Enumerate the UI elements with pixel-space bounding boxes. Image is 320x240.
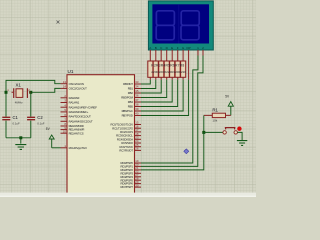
display pin 1 stub: [197, 50, 199, 56]
node capacitor ground junction: [19, 136, 22, 139]
node crystal pin1 junction: [5, 91, 8, 94]
pin 26 RC7/RX/DT: [119, 147, 141, 153]
wire C1 bottom to C2 bottom: [6, 137, 31, 139]
wire segment A to RB0: [141, 80, 150, 84]
pin 39 RB6/PGC: [122, 107, 141, 113]
svg-text:1: 1: [197, 46, 199, 50]
display segment pin labels ABCDEFG DP: [149, 46, 204, 50]
pin 4 RA2/AN2/VREF-/CVREF: [61, 103, 98, 109]
blue diamond marker: [184, 149, 189, 154]
svg-text:RB2: RB2: [128, 91, 134, 95]
display pin DP stub: [188, 50, 190, 57]
microcontroller U1 PIC16F877A body: [67, 75, 135, 197]
pin 38 RB5: [128, 103, 141, 109]
pin 2 RA0/AN0: [61, 94, 80, 100]
display pin 2 stub: [202, 50, 204, 56]
svg-text:40: 40: [135, 112, 139, 116]
svg-text:RB4: RB4: [128, 100, 134, 104]
svg-text:C1: C1: [13, 115, 19, 120]
pin 36 RB3/PGM: [121, 94, 141, 100]
svg-text:OSC2/CLKOUT: OSC2/CLKOUT: [69, 87, 88, 91]
svg-text:34: 34: [135, 85, 139, 89]
pin 29 RD6/PSP6: [120, 180, 141, 186]
pin 10 RE2/AN7/CS: [61, 129, 84, 135]
svg-text:0.1uF: 0.1uF: [13, 122, 20, 126]
svg-text:RA0/AN0: RA0/AN0: [69, 96, 80, 100]
resistor R7: [175, 57, 180, 80]
svg-text:F: F: [177, 46, 179, 50]
svg-text:RD7/PSP7: RD7/PSP7: [120, 185, 133, 189]
wire digit 2 to RD1: [141, 56, 203, 167]
svg-text:10k: 10k: [212, 118, 217, 122]
display pin D stub: [166, 50, 168, 57]
7-segment display module frame: [148, 1, 213, 50]
wire R1 to button node: [203, 115, 205, 132]
button red actuator dot: [237, 127, 241, 131]
svg-text:RB6/PGC: RB6/PGC: [122, 109, 133, 113]
svg-text:RA3/AN3/VREF+: RA3/AN3/VREF+: [69, 110, 89, 114]
capacitor C1: [2, 117, 10, 119]
display pin F stub: [177, 50, 179, 57]
wire to ground: [20, 138, 22, 144]
svg-text:DP: DP: [186, 46, 190, 50]
svg-text:33: 33: [135, 80, 139, 84]
wire crystal pin1 down to C1: [5, 92, 7, 116]
svg-text:RB7/PGD: RB7/PGD: [122, 114, 133, 118]
pin 21 RD2/PSP2: [120, 166, 141, 172]
pin 16 RC1/T1OSI/CCP2: [112, 124, 141, 130]
pin 23 RC4/SDI/SDA: [117, 136, 141, 142]
pin 14 OSC2/CLKOUT: [61, 85, 88, 91]
resistor R5: [164, 57, 169, 80]
ground (button): [237, 141, 247, 146]
push button: [223, 128, 237, 134]
svg-text:13: 13: [63, 80, 67, 84]
ground (crystal caps): [15, 145, 26, 150]
pin 25 RC6/TX/CK: [120, 143, 141, 149]
svg-text:U1: U1: [68, 69, 74, 74]
svg-text:220R220R220R220R220: 220R220R220R220R220: [151, 70, 186, 74]
power +5V flag (R1): [228, 102, 233, 107]
svg-text:0.1uF: 0.1uF: [37, 122, 44, 126]
display pin A stub: [149, 50, 151, 57]
svg-text:RB0/INT: RB0/INT: [123, 82, 133, 86]
pin 8 RE0/AN5/RD: [61, 122, 84, 128]
crystal X1: [12, 88, 31, 98]
digit divider: [178, 4, 180, 43]
display pin C stub: [160, 50, 162, 57]
pin 22 RD3/PSP3: [120, 170, 141, 176]
pin 37 RB4: [128, 98, 141, 104]
wire node to button: [204, 131, 223, 133]
wire segment E to RB4: [141, 80, 172, 102]
svg-text:4MHz: 4MHz: [15, 101, 23, 105]
svg-text:RB1: RB1: [128, 87, 134, 91]
svg-text:OSC1/CLKIN: OSC1/CLKIN: [69, 82, 84, 86]
pin 6 RA4/T0CKI/C1OUT: [61, 113, 92, 119]
display pin G stub: [182, 50, 184, 57]
seven segment digit 1: [156, 11, 174, 40]
pin 9 RE1/AN6/WR: [61, 126, 85, 132]
svg-text:X1: X1: [16, 83, 22, 88]
svg-text:RE2/AN7/CS: RE2/AN7/CS: [69, 131, 84, 135]
pin 24 RC5/SDO: [121, 139, 141, 145]
seven segment digit 2: [181, 11, 199, 40]
wire digit 1 to RD0: [141, 56, 198, 164]
pin 15 RC0/T1OSO/T1CKI: [110, 121, 141, 127]
svg-text:10: 10: [63, 129, 67, 133]
wire C1 bottom lead: [5, 121, 7, 138]
wire 5V flag to MCLR pin 1: [52, 147, 61, 149]
svg-text:MCLR/Vpp/THV: MCLR/Vpp/THV: [69, 146, 88, 150]
svg-text:RA1/AN1: RA1/AN1: [69, 101, 80, 105]
svg-text:RA4/T0CKI/C1OUT: RA4/T0CKI/C1OUT: [69, 115, 92, 119]
svg-text:RB5: RB5: [128, 105, 134, 109]
svg-text:RA2/AN2/VREF-/CVREF: RA2/AN2/VREF-/CVREF: [69, 105, 98, 109]
pin 30 RD7/PSP7: [120, 183, 141, 189]
svg-text:14: 14: [63, 85, 67, 89]
wire button to ground: [237, 132, 242, 140]
resistor R3: [153, 57, 158, 80]
pin 17 RC2/CCP1: [120, 128, 141, 134]
resistor R1: [204, 113, 231, 117]
svg-text:37: 37: [135, 98, 139, 102]
pin 28 RD5/PSP5: [120, 176, 141, 182]
svg-text:39: 39: [135, 107, 139, 111]
svg-text:RA5/AN4/SS/C2OUT: RA5/AN4/SS/C2OUT: [69, 119, 93, 123]
wire crystal pin1 to OSC1 (pin 13): [6, 80, 61, 92]
pin 40 RB7/PGD: [122, 112, 141, 118]
capacitor C2: [27, 117, 35, 119]
power +5V flag (MCLR): [49, 135, 54, 139]
pin 18 RC3/SCK/SCL: [116, 132, 141, 138]
wire segment B to RB1: [141, 80, 156, 89]
svg-text:R1: R1: [212, 108, 218, 113]
pin 35 RB2: [128, 89, 141, 95]
pin 19 RD0/PSP0: [120, 159, 141, 165]
node button junction: [202, 131, 205, 134]
svg-text:36: 36: [135, 94, 139, 98]
wire crystal pin2 down to C2: [30, 92, 32, 116]
svg-text:26: 26: [135, 147, 139, 151]
svg-text:2: 2: [202, 46, 204, 50]
svg-text:30: 30: [135, 183, 139, 187]
pin 7 RA5/AN4/SS/C2OUT: [61, 118, 94, 124]
svg-text:B: B: [155, 46, 157, 50]
wire C2 bottom lead: [30, 121, 32, 138]
pin 20 RD1/PSP1: [120, 163, 141, 169]
svg-text:35: 35: [135, 89, 139, 93]
pin 27 RD4/PSP4: [120, 173, 141, 179]
resistor R6: [170, 57, 175, 80]
svg-text:R2R3R4R5R6R7R8: R2R3R4R5R6R7R8: [151, 64, 184, 68]
resistor R4: [159, 57, 164, 80]
display screen: [152, 4, 209, 43]
wire segment DP to RB7: [141, 80, 189, 116]
node crystal pin2 junction: [29, 91, 32, 94]
wire button node to RD2: [141, 132, 204, 170]
display pin DP red lead: [188, 57, 190, 80]
wire crystal pin2 to OSC2 (pin 14): [31, 88, 61, 92]
pin 3 RA1/AN1: [61, 99, 80, 105]
svg-text:38: 38: [135, 103, 139, 107]
wire segment C to RB2: [141, 80, 161, 93]
pin 1 MCLR/Vpp/THV: [61, 144, 88, 150]
wire segment D to RB3: [141, 80, 167, 98]
svg-text:E: E: [171, 46, 173, 50]
pin 34 RB1: [128, 85, 141, 91]
display pin E stub: [171, 50, 173, 57]
svg-text:C2: C2: [37, 115, 43, 120]
resistor R8: [181, 57, 186, 80]
pin 5 RA3/AN3/VREF+: [61, 108, 89, 114]
pin 33 RB0/INT: [123, 80, 141, 86]
svg-text:RB3/PGM: RB3/PGM: [121, 96, 133, 100]
svg-text:RC7/RX/DT: RC7/RX/DT: [119, 149, 133, 153]
wire segment G to RB6: [141, 80, 183, 111]
pin 13 OSC1/CLKIN: [61, 80, 84, 86]
resistor R2: [148, 57, 153, 80]
display pin B stub: [155, 50, 157, 57]
wire segment F to RB5: [141, 80, 178, 107]
